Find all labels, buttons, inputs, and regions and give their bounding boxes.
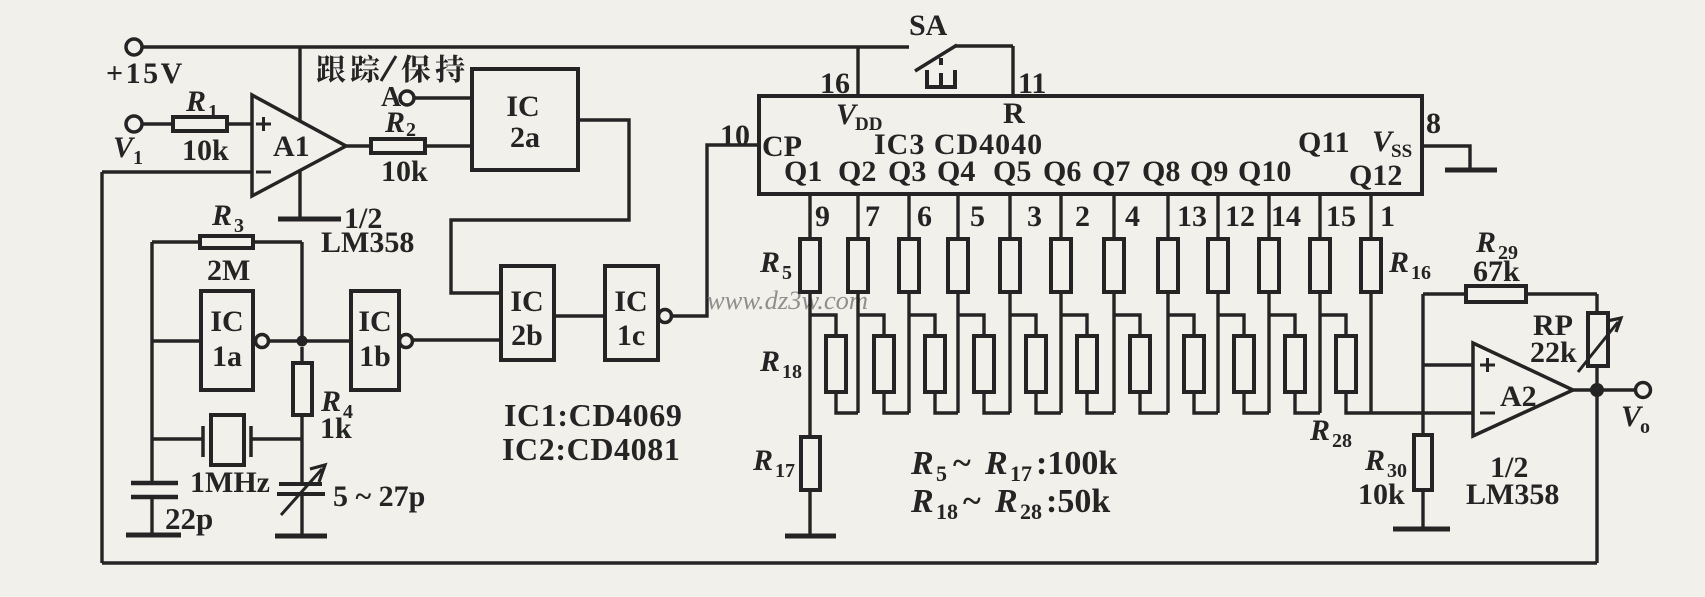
wire left feedback vertical [100, 172, 103, 563]
svg-text:67k: 67k [1473, 255, 1520, 288]
resistor R2 [371, 139, 425, 153]
svg-text:4: 4 [1125, 200, 1140, 233]
resistor R13 (100k) [1208, 239, 1228, 292]
wire column Q3 below resistor [907, 292, 910, 413]
wire right vertical node [1421, 294, 1424, 435]
resistor R5 (100k) [800, 239, 820, 292]
resistor R21 (50k) [974, 336, 994, 392]
svg-text:R: R [759, 345, 780, 378]
svg-text:Q8: Q8 [1142, 155, 1180, 188]
svg-text:16: 16 [1411, 262, 1431, 284]
resistor R15 (100k) [1310, 239, 1330, 292]
resistor R8 (100k) [948, 239, 968, 292]
svg-text:IC: IC [614, 285, 647, 318]
capacitor C1 22p bottom plate [131, 495, 178, 500]
resistor R12 (100k) [1158, 239, 1178, 292]
wire pin 1 stub [1369, 194, 1372, 239]
wire R18 top jog [810, 315, 836, 336]
svg-text:R: R [984, 445, 1008, 482]
gate IC1b (inverter) [351, 291, 399, 390]
resistor R29 (67k) [1466, 286, 1526, 302]
resistor R4 [293, 363, 312, 415]
svg-text:1: 1 [208, 101, 218, 123]
svg-text:17: 17 [775, 460, 795, 482]
junction node osc [297, 336, 308, 347]
junction node output [1590, 383, 1604, 397]
resistor R22 (50k) [1026, 336, 1046, 392]
svg-text:R: R [1364, 444, 1385, 477]
wire crystal right [251, 437, 302, 440]
svg-text:2b: 2b [511, 319, 543, 352]
svg-text:SS: SS [1391, 141, 1412, 162]
wire A to IC2a [414, 96, 472, 99]
wire A1 -input [102, 170, 252, 173]
svg-text:+15V: +15V [106, 57, 185, 90]
terminal V1 [126, 116, 142, 132]
wire output feedback vertical [1595, 390, 1598, 563]
resistor R27 (50k) [1285, 336, 1305, 392]
wire IC1a output to IC1b [269, 339, 351, 342]
wire R22 top jog [1010, 315, 1036, 336]
wire SA right segment [955, 44, 1013, 47]
wire bottom rail [102, 561, 1597, 564]
wire IC1b output to IC2b input [413, 338, 501, 341]
wire pin 15 stub [1318, 194, 1321, 239]
wire pin 5 stub [956, 194, 959, 239]
svg-text:SA: SA [909, 9, 948, 42]
wire RP bottom to node [1595, 366, 1598, 390]
ground bar below A1 (op-amp supply) [278, 217, 341, 222]
resistor R24 (50k) [1130, 336, 1150, 392]
resistor R7 (100k) [899, 239, 919, 292]
svg-text:2: 2 [1075, 200, 1090, 233]
wire column Q10 below resistor [1267, 292, 1270, 413]
svg-text:10k: 10k [1358, 478, 1405, 511]
svg-text:IC: IC [210, 305, 243, 338]
wire ladder output to A2 -input [1371, 411, 1473, 414]
wire IC1c output to CP pin 10 [672, 145, 759, 316]
resistor R26 (50k) [1234, 336, 1254, 392]
wire R20 top jog [909, 315, 935, 336]
wire R23 top jog [1061, 315, 1087, 336]
op-amp A1 [252, 95, 346, 196]
wire R17 to ground [808, 490, 811, 536]
wire A1 output to R2 [346, 144, 371, 147]
svg-text:14: 14 [1271, 200, 1301, 233]
wire pin 14 stub [1267, 194, 1270, 239]
svg-text:5: 5 [936, 461, 947, 486]
svg-text:12: 12 [1225, 200, 1255, 233]
label track/hold 跟踪/保持 [317, 55, 346, 83]
svg-text::50k: :50k [1046, 483, 1110, 520]
IC U3 CD4040 body [759, 96, 1422, 194]
wire pin 13 stub [1166, 194, 1169, 239]
svg-text:1a: 1a [212, 340, 242, 373]
wire pin 8 to ground [1422, 146, 1470, 170]
svg-text:Q7: Q7 [1092, 155, 1130, 188]
wire R21 top jog [958, 315, 984, 336]
svg-text:10k: 10k [182, 134, 229, 167]
trimmer C2 bottom plate [277, 492, 325, 496]
trimmer C2 arrow [281, 469, 322, 515]
svg-text:6: 6 [917, 200, 932, 233]
wire crystal left [152, 437, 203, 440]
IC1a output bubble [256, 335, 269, 348]
wire pin 6 stub [907, 194, 910, 239]
ground bar under R30 [1393, 527, 1450, 532]
potentiometer RP 22k [1588, 313, 1608, 366]
switch SA contact symbol [927, 70, 955, 87]
svg-text:IC2:CD4081: IC2:CD4081 [502, 431, 680, 467]
svg-text:Q10: Q10 [1238, 155, 1291, 188]
wire pin 4 stub [1112, 194, 1115, 239]
wire R19 top jog [858, 315, 884, 336]
svg-text:22k: 22k [1530, 336, 1577, 369]
resistor R17 (100k) [801, 437, 820, 490]
wire R26 top jog [1218, 315, 1244, 336]
wire pin 9 stub [808, 194, 811, 239]
svg-text:R: R [1388, 246, 1409, 279]
wire pin16 to rail [856, 47, 859, 96]
wire R25 top jog [1168, 315, 1194, 336]
wire R24 bottom jog [1140, 392, 1168, 413]
resistor R23 (50k) [1077, 336, 1097, 392]
wire R26 bottom jog [1244, 392, 1269, 413]
svg-text:28: 28 [1020, 499, 1042, 524]
wire R22 bottom jog [1036, 392, 1061, 413]
svg-text:~: ~ [963, 483, 981, 520]
svg-text:R: R [759, 246, 780, 279]
wire A2 output [1573, 388, 1638, 391]
svg-text:18: 18 [936, 499, 958, 524]
svg-text:IC: IC [358, 305, 391, 338]
wire IC2a output to IC2b input [451, 120, 629, 293]
svg-text:Q1: Q1 [784, 155, 822, 188]
svg-text:LM358: LM358 [1466, 478, 1559, 511]
crystal X1 1MHz [211, 415, 244, 465]
svg-text:R: R [185, 85, 206, 118]
terminal A [400, 91, 414, 105]
svg-text:10k: 10k [381, 155, 428, 188]
svg-text:Q9: Q9 [1190, 155, 1228, 188]
wire R23 bottom jog [1087, 392, 1114, 413]
svg-text:5: 5 [782, 262, 792, 284]
svg-text:R: R [994, 483, 1018, 520]
svg-text:R: R [910, 445, 934, 482]
wire R4 to crystal node [300, 415, 303, 484]
svg-text:3: 3 [234, 215, 244, 237]
svg-text:www.dz3w.com: www.dz3w.com [707, 285, 868, 315]
svg-text:R: R [1309, 414, 1330, 447]
wire R3 left [152, 240, 200, 243]
svg-text:Q12: Q12 [1349, 159, 1402, 192]
ground bar under C1 [126, 533, 181, 538]
svg-text:18: 18 [782, 361, 802, 383]
A2 minus sign [1480, 412, 1495, 415]
svg-text:7: 7 [865, 200, 880, 233]
wire C2 to ground [300, 494, 303, 536]
svg-text:10: 10 [720, 119, 750, 152]
svg-text:Q3: Q3 [888, 155, 926, 188]
wire column Q2 below resistor [856, 292, 859, 413]
svg-text:A1: A1 [273, 130, 310, 163]
wire R24 top jog [1114, 315, 1140, 336]
resistor R3 [200, 236, 253, 248]
svg-text:Q2: Q2 [838, 155, 876, 188]
resistor R11 (100k) [1104, 239, 1124, 292]
terminal +15V [126, 39, 142, 55]
svg-text:2: 2 [406, 119, 416, 141]
svg-text:2M: 2M [207, 254, 250, 287]
wire column Q4 below resistor [956, 292, 959, 413]
svg-text:R: R [910, 483, 934, 520]
resistor R19 (50k) [874, 336, 894, 392]
IC1b output bubble [400, 335, 413, 348]
wire column Q7 below resistor [1112, 292, 1115, 413]
wire A2 +input [1423, 363, 1473, 366]
crystal right plate [249, 426, 253, 457]
resistor R10 (100k) [1051, 239, 1071, 292]
resistor R25 (50k) [1184, 336, 1204, 392]
svg-text:13: 13 [1177, 200, 1207, 233]
wire R28 bottom jog [1346, 392, 1371, 413]
svg-text:LM358: LM358 [321, 226, 414, 259]
svg-text:IC: IC [510, 285, 543, 318]
wire column Q9 below resistor [1216, 292, 1219, 413]
resistor R14 (100k) [1259, 239, 1279, 292]
svg-text:9: 9 [815, 200, 830, 233]
wire column Q5 below resistor [1008, 292, 1011, 413]
wire column Q12 below resistor [1369, 292, 1372, 413]
wire R29 right to RP [1526, 292, 1597, 295]
svg-text:Q4: Q4 [937, 155, 975, 188]
trimmer C2 top plate [279, 482, 322, 486]
wire column Q11 below resistor [1318, 292, 1321, 413]
wire R19 bottom jog [884, 392, 909, 413]
wire R2 to IC2a [425, 144, 472, 147]
svg-text:IC1:CD4069: IC1:CD4069 [504, 397, 682, 433]
ground bar under R17 [785, 534, 836, 539]
op-amp A2 [1473, 343, 1573, 436]
wire R21 bottom jog [984, 392, 1010, 413]
wire R30 to ground [1421, 490, 1424, 529]
switch SA blade [915, 45, 957, 71]
wire pin 12 stub [1216, 194, 1219, 239]
svg-text:15: 15 [1326, 200, 1356, 233]
wire R18 bottom jog [836, 392, 858, 413]
resistor R20 (50k) [925, 336, 945, 392]
ground bar under C2 [275, 534, 327, 539]
wire R1 to A1 +input [227, 122, 252, 125]
wire V1 to R1 [142, 122, 173, 125]
svg-text:1b: 1b [359, 340, 391, 373]
gate IC2b (AND) [501, 266, 554, 360]
svg-text:5 ~ 27p: 5 ~ 27p [333, 480, 425, 513]
resistor R1 [173, 117, 227, 131]
svg-text:1c: 1c [617, 319, 645, 352]
capacitor C1 22p top plate [131, 481, 178, 486]
wire pin11 post [1011, 46, 1014, 96]
A2 plus sign [1480, 364, 1495, 367]
A1 plus sign [256, 123, 271, 126]
wire IC2b output to IC1c [554, 314, 605, 317]
svg-text:R: R [1003, 97, 1025, 130]
wire column Q8 below resistor [1166, 292, 1169, 413]
wire C1 to ground [150, 497, 153, 535]
resistor R9 (100k) [1000, 239, 1020, 292]
svg-text:2a: 2a [510, 121, 540, 154]
svg-text:R: R [752, 444, 773, 477]
svg-text:3: 3 [1027, 200, 1042, 233]
ground bar pin 8 [1445, 168, 1497, 173]
wire pin 7 stub [856, 194, 859, 239]
wire pin 2 stub [1059, 194, 1062, 239]
svg-text:5: 5 [970, 200, 985, 233]
resistor R16 (100k) [1361, 239, 1381, 292]
A1 minus sign [256, 171, 271, 174]
wire R20 bottom jog [935, 392, 958, 413]
wire IC1a input [152, 339, 201, 342]
wire R3 right to node [253, 240, 302, 243]
resistor R18 (50k) [826, 336, 846, 392]
wire pin 3 stub [1008, 194, 1011, 239]
wire left oscillator vertical [150, 242, 153, 484]
svg-text:R: R [211, 199, 232, 232]
svg-text:~: ~ [953, 445, 971, 482]
svg-text:A2: A2 [1500, 380, 1537, 413]
RP wiper arrow [1578, 322, 1618, 372]
svg-text::100k: :100k [1036, 445, 1117, 482]
svg-text:o: o [1640, 416, 1650, 438]
wire R28 top jog [1320, 315, 1346, 336]
svg-text:Q6: Q6 [1043, 155, 1081, 188]
terminal Vo [1636, 383, 1651, 398]
svg-text:1MHz: 1MHz [190, 466, 270, 499]
svg-text:28: 28 [1332, 430, 1352, 452]
svg-text:1k: 1k [320, 412, 352, 445]
power rail +15V wire [134, 45, 909, 48]
wire RP top [1595, 294, 1598, 313]
wire column Q1 below resistor [808, 292, 811, 437]
wire A1 V+ supply drop [298, 47, 301, 219]
wire node to R4 [300, 347, 303, 363]
wire R27 bottom jog [1295, 392, 1320, 413]
svg-text:22p: 22p [165, 501, 213, 536]
svg-text:IC: IC [506, 90, 539, 123]
resistor R28 (50k) [1336, 336, 1356, 392]
gate IC1a (inverter, CD4069) [201, 291, 253, 390]
resistor R6 (100k) [848, 239, 868, 292]
svg-text:Q5: Q5 [993, 155, 1031, 188]
svg-text:8: 8 [1426, 107, 1441, 140]
wire node to R3 [300, 242, 303, 336]
svg-text:1: 1 [1380, 200, 1395, 233]
gate IC1c (inverter) [605, 266, 658, 360]
gate IC2a (AND, CD4081) [472, 69, 578, 170]
IC1c output bubble [659, 310, 672, 323]
wire column Q6 below resistor [1059, 292, 1062, 413]
svg-text:Q11: Q11 [1298, 126, 1350, 159]
wire R29 left [1423, 292, 1466, 295]
crystal left plate [201, 426, 205, 457]
resistor R30 (10k) [1414, 435, 1432, 490]
wire R25 bottom jog [1194, 392, 1218, 413]
wire R27 top jog [1269, 315, 1295, 336]
